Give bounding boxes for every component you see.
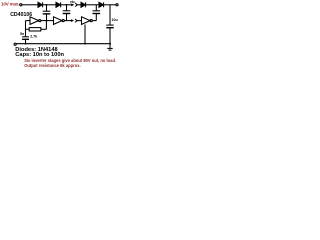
node pump2 top <box>66 4 68 6</box>
capacitor C2 pump <box>66 5 68 11</box>
wire top rail segment 2 <box>43 4 56 6</box>
wire feedback right <box>41 28 47 30</box>
node feedback junction <box>46 20 48 22</box>
wire break top rail <box>71 3 74 6</box>
svg-text:5n: 5n <box>20 32 24 36</box>
diode D4 <box>99 2 103 7</box>
svg-text:2.7k: 2.7k <box>30 35 37 39</box>
wire break logic row <box>71 19 74 22</box>
wire top rail segment 1 <box>22 4 38 6</box>
svg-text:10u: 10u <box>112 18 118 22</box>
wire top rail segment 4 <box>77 4 81 6</box>
diode D3 <box>81 2 85 7</box>
svg-text:Output resistance 6k approx.: Output resistance 6k approx. <box>24 63 80 68</box>
node reservoir ground <box>109 43 111 45</box>
terminal 0V <box>14 43 16 45</box>
capacitor C5 10u reservoir <box>109 5 111 25</box>
wire inverter1 output <box>41 20 54 22</box>
diode D2 <box>56 2 60 7</box>
diode D1 <box>38 2 42 7</box>
svg-text:CD40106: CD40106 <box>10 12 32 18</box>
wire ground rail <box>16 43 111 45</box>
terminal output <box>116 4 118 6</box>
capacitor C3 pump <box>95 5 97 11</box>
wire ground stub from U1c <box>84 24 86 43</box>
wire inverter2 output <box>64 20 72 22</box>
wire top rail segment 3 <box>61 4 74 6</box>
svg-text:Caps: 10n to 100n: Caps: 10n to 100n <box>15 52 64 58</box>
node pump1 top <box>46 4 48 6</box>
wire inverter3 input <box>76 20 82 22</box>
ground <box>109 44 111 49</box>
wire inverter1 input <box>26 20 31 22</box>
wire feedback left <box>26 28 30 30</box>
node U1c ground <box>84 43 86 45</box>
resistor R1 2.7k <box>29 28 41 31</box>
op-amp U1c inverter <box>82 17 91 25</box>
capacitor C1 pump <box>46 5 48 11</box>
node 5n ground <box>25 43 27 45</box>
terminal supply input <box>20 4 22 6</box>
op-amp U1b inverter <box>54 17 63 25</box>
wire top rail segment 5 <box>86 4 99 6</box>
wire inverter3 output to C3 <box>92 20 96 22</box>
op-amp U1a inverter <box>30 17 39 25</box>
wire top rail segment 6 <box>104 4 116 6</box>
svg-text:10V max.: 10V max. <box>1 2 19 7</box>
svg-text:etc.: etc. <box>70 0 76 4</box>
